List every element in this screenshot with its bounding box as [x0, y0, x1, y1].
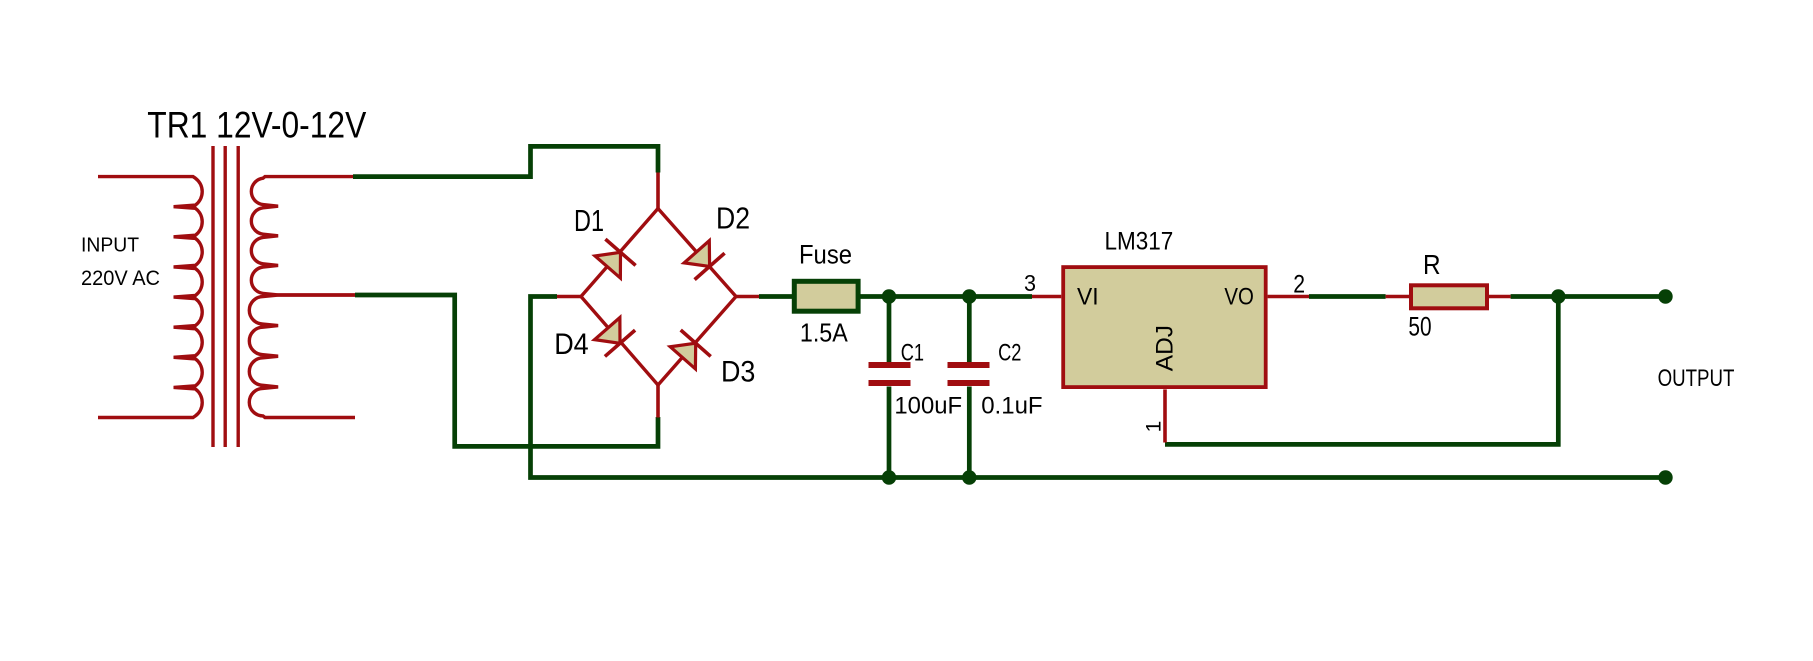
pin stub VO: [1268, 295, 1309, 299]
diode D2: [684, 241, 724, 280]
svg-text:OUTPUT: OUTPUT: [1658, 365, 1735, 392]
svg-text:INPUT: INPUT: [81, 235, 139, 257]
wire capacitor C2 vertical: [967, 294, 972, 362]
capacitor C1 plates: [869, 365, 911, 383]
svg-text:D2: D2: [716, 201, 750, 236]
wire bridge left vertex to ground rail (bottom rail): [531, 297, 1666, 478]
svg-text:C1: C1: [901, 340, 924, 367]
fuse F1 body: [794, 281, 858, 311]
svg-text:1.5A: 1.5A: [800, 318, 848, 348]
svg-text:VI: VI: [1077, 284, 1099, 311]
svg-text:2: 2: [1293, 271, 1305, 299]
wire LM317 VO to resistor R: [1309, 294, 1386, 299]
svg-text:TR1 12V-0-12V: TR1 12V-0-12V: [147, 105, 366, 146]
svg-text:D4: D4: [554, 328, 589, 361]
resistor R body: [1411, 285, 1487, 308]
wire fuse to LM317 VI: [861, 294, 1033, 299]
svg-text:1: 1: [1143, 421, 1166, 433]
svg-text:100uF: 100uF: [894, 393, 962, 420]
svg-text:3: 3: [1024, 270, 1036, 296]
terminal dot output negative: [1658, 470, 1672, 484]
pin stub VI: [1032, 295, 1061, 299]
svg-text:50: 50: [1408, 311, 1431, 341]
transformer TR1 secondary winding upper half: [251, 177, 355, 295]
svg-text:D1: D1: [574, 203, 604, 238]
wire LM317 ADJ feedback to output node: [1165, 297, 1558, 445]
transformer TR1 core: [213, 146, 238, 447]
svg-text:VO: VO: [1224, 284, 1254, 311]
transformer TR1 secondary winding lower half: [249, 295, 355, 418]
bridge top pin stub: [656, 173, 660, 209]
diode D4: [595, 318, 636, 357]
terminal dot output positive: [1658, 289, 1672, 303]
wire secondary center tap to bridge bottom: [355, 295, 658, 446]
resistor R left pin stub: [1386, 295, 1410, 299]
svg-text:D3: D3: [721, 355, 755, 388]
junction dot output node: [1551, 289, 1565, 303]
svg-text:LM317: LM317: [1105, 228, 1174, 256]
transformer TR1 primary winding: [98, 177, 202, 418]
junction dot at C2 bottom rail: [962, 470, 976, 484]
svg-text:Fuse: Fuse: [799, 239, 852, 269]
bridge right pin stub: [735, 295, 759, 299]
regulator U1 LM317 body: [1063, 267, 1266, 387]
capacitor C2 plates: [948, 365, 990, 383]
junction dot at C2 node top: [962, 289, 976, 303]
diode D1: [595, 239, 636, 278]
pin stub ADJ: [1163, 389, 1167, 442]
wire capacitor C1 vertical: [887, 294, 892, 362]
svg-text:220V AC: 220V AC: [81, 267, 160, 290]
svg-text:R: R: [1423, 249, 1441, 280]
junction dot at fuse/C1 node: [882, 289, 896, 303]
resistor R right pin stub: [1489, 295, 1511, 299]
bridge left pin stub: [557, 295, 582, 299]
svg-text:C2: C2: [998, 340, 1021, 367]
wire secondary top to bridge top: [353, 146, 658, 176]
bridge bottom pin stub: [656, 385, 660, 418]
svg-text:0.1uF: 0.1uF: [981, 393, 1042, 420]
wire resistor R to output terminal: [1511, 294, 1666, 299]
bridge rectifier diamond wiring: [581, 209, 736, 386]
svg-text:ADJ: ADJ: [1151, 325, 1178, 371]
diode D3: [670, 330, 710, 369]
wire bridge right vertex to fuse: [759, 294, 793, 299]
junction dot at C1 bottom rail: [882, 470, 896, 484]
